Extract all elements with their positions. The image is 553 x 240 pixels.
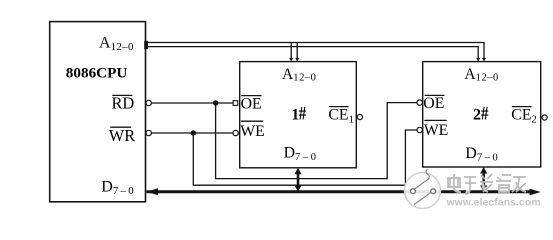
svg-text:WE: WE — [424, 122, 449, 139]
svg-text:www.elecfans.com: www.elecfans.com — [446, 198, 541, 209]
svg-text:8086CPU: 8086CPU — [66, 65, 128, 82]
svg-text:1: 1 — [291, 106, 299, 123]
svg-text:#: # — [481, 103, 489, 124]
svg-text:OE: OE — [423, 95, 444, 112]
svg-text:WR: WR — [109, 126, 135, 145]
svg-text:OE: OE — [241, 96, 262, 113]
svg-text:2: 2 — [473, 106, 481, 123]
svg-text:#: # — [299, 103, 307, 124]
svg-text:RD: RD — [112, 93, 135, 112]
svg-text:WE: WE — [240, 123, 265, 140]
